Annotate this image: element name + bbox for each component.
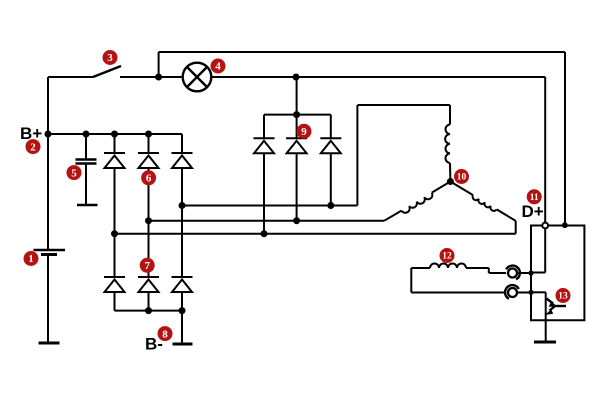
svg-text:13: 13 [558,292,568,302]
svg-text:10: 10 [457,173,467,183]
svg-text:2: 2 [30,141,36,153]
svg-text:1: 1 [28,253,34,265]
svg-text:6: 6 [146,173,152,185]
svg-text:9: 9 [301,126,307,138]
svg-text:B+: B+ [20,124,42,143]
svg-text:7: 7 [144,260,150,272]
svg-text:3: 3 [107,52,113,64]
svg-text:4: 4 [215,61,221,73]
svg-text:5: 5 [71,167,77,179]
svg-text:12: 12 [442,252,452,262]
svg-text:8: 8 [162,328,168,340]
svg-text:B-: B- [145,335,163,354]
svg-text:D+: D+ [522,202,544,221]
